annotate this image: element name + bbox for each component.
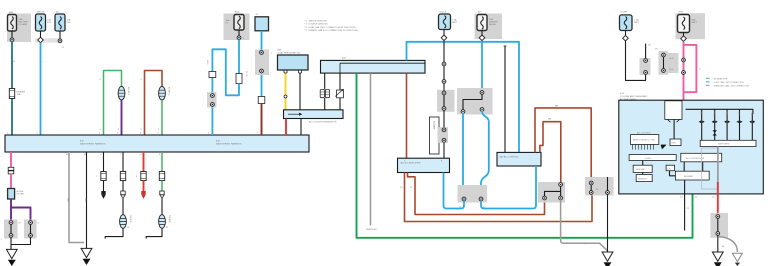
svg-text:1H 2: 1H 2	[206, 60, 208, 65]
switch labels	[700, 112, 753, 117]
diamond indicator	[713, 130, 717, 135]
link left boxes	[642, 161, 644, 175]
wire black below bar	[300, 119, 302, 136]
ring IP3	[461, 110, 465, 114]
svg-text:10: 10	[400, 187, 403, 189]
wire brown outer loop	[535, 108, 591, 181]
wire black block S to ground	[717, 235, 719, 252]
svg-text:* 5 : W/BACK CAB (O/O CONNECT: * 5 : W/BACK CAB (O/O CONNECTOR W/ JUNCT…	[304, 29, 358, 32]
wire GAUGE to connector	[40, 31, 42, 38]
wire dark red to bus	[261, 104, 263, 136]
svg-text:8: 8	[136, 176, 138, 178]
arrow mid	[661, 145, 667, 150]
fuse HEATER inline	[9, 89, 14, 99]
svg-text:: SHIELDED CAB - W/O CONNECTOR: : SHIELDED CAB - W/O CONNECTOR	[713, 84, 750, 87]
fuse GAUGE	[36, 14, 46, 31]
connector rect 1H horizontal	[209, 72, 216, 78]
connector oval c2	[120, 215, 127, 229]
wire A/C to diamond	[481, 31, 483, 36]
svg-text:MAIN WIRING HARNESS: MAIN WIRING HARNESS	[216, 142, 242, 145]
fuse A/C No.2	[55, 14, 65, 31]
wire circuit4 d	[146, 228, 162, 238]
connector oval c4	[159, 215, 166, 229]
connector rect 1J vertical	[236, 74, 242, 84]
svg-text:4: 4	[99, 133, 101, 135]
svg-text:A62 A/C CONTROL: A62 A/C CONTROL	[500, 156, 520, 159]
wire circuit2 c	[122, 199, 124, 215]
connector triangle GAUGE	[38, 37, 44, 43]
ring M3	[559, 196, 563, 200]
svg-text:AM2: AM2	[235, 11, 240, 14]
svg-text:P: P	[699, 69, 701, 71]
fuse A/C main	[477, 15, 487, 31]
wire circuit1 b	[103, 181, 105, 192]
wire cyan IP curve to block L right	[481, 111, 489, 197]
svg-text:1E: 1E	[655, 49, 658, 51]
ring M1	[559, 183, 563, 187]
switch drop 2	[714, 109, 716, 140]
svg-text:IGN: IGN	[67, 22, 71, 24]
left small box B	[636, 175, 652, 182]
connector diamond HTR	[681, 36, 687, 42]
svg-text:5: 5	[158, 133, 160, 135]
connector block IM	[437, 90, 455, 112]
svg-text:HEATER: HEATER	[489, 21, 498, 24]
wire black block R to ground	[607, 177, 609, 252]
wire pink from bus	[10, 152, 12, 168]
svg-text:REC: REC	[713, 112, 715, 117]
wire cyan DOME down	[261, 31, 263, 97]
svg-text:13: 13	[166, 227, 169, 229]
connector block IF	[255, 50, 269, 76]
svg-text:BATTERY: BATTERY	[19, 21, 29, 24]
svg-text:15: 15	[695, 197, 698, 199]
wire black ps	[299, 73, 301, 110]
connector block R	[585, 177, 614, 196]
arrow inside bar	[288, 113, 302, 116]
switch rail	[686, 109, 753, 114]
svg-text:A15: A15	[342, 57, 347, 60]
component outline tall rect	[430, 117, 440, 154]
ring IJ2	[9, 234, 13, 238]
svg-text:4: 4	[100, 129, 102, 131]
ring IM1	[442, 91, 446, 95]
wire ECU-B to diamond	[443, 30, 445, 36]
connector block IJ left	[4, 220, 18, 239]
svg-text:1: 1	[7, 133, 9, 135]
connector block S	[710, 213, 728, 238]
svg-text:4: 4	[100, 79, 102, 81]
ground right1	[712, 252, 723, 266]
svg-text:1J 2 L: 1J 2 L	[245, 71, 247, 78]
terminal circuit3	[141, 191, 145, 199]
wire brown box1 to horizontal2	[405, 173, 593, 222]
bus A15 cowl wire	[5, 135, 309, 152]
ring IP2	[480, 108, 484, 112]
wire W-B black to ground	[86, 152, 88, 248]
wire to relay sym2	[339, 73, 341, 110]
svg-text:7.5A: 7.5A	[452, 19, 457, 22]
svg-text:E5 BR-G: E5 BR-G	[168, 87, 170, 96]
wire brown inner loop	[540, 122, 561, 183]
legend line 2	[706, 81, 744, 84]
svg-text:12V: 12V	[667, 168, 671, 170]
svg-text:10A: 10A	[67, 19, 71, 22]
svg-text:1E: 1E	[648, 45, 651, 47]
wire cyan zigzag AM2	[238, 39, 240, 73]
gray label block HTR	[668, 53, 679, 73]
wire DOME to diamond	[625, 31, 627, 36]
link wire block M	[545, 186, 561, 197]
svg-text:5: 5	[37, 133, 39, 135]
svg-text:MAIN WIRING HARNESS: MAIN WIRING HARNESS	[80, 142, 106, 145]
wires bar to blower	[684, 162, 703, 171]
box2 A/C control	[497, 152, 541, 166]
connector block IG	[207, 92, 217, 108]
link wire 1E	[663, 55, 665, 71]
svg-text:13: 13	[127, 227, 130, 229]
svg-text:BLOWER: BLOWER	[684, 176, 694, 178]
ring L2	[479, 197, 483, 201]
svg-text:2: 2	[208, 133, 210, 135]
wire join to ground	[11, 237, 31, 249]
svg-text:REG: REG	[672, 143, 677, 145]
legend line 3	[706, 84, 749, 87]
ring IF1	[260, 51, 264, 55]
svg-text:DUAL PRESSURE SW: DUAL PRESSURE SW	[278, 51, 301, 54]
junction block 1E	[659, 51, 669, 75]
svg-text:10: 10	[712, 197, 715, 199]
ring S1	[716, 215, 720, 219]
ring IF2	[260, 69, 264, 73]
connector pair IG1	[8, 167, 14, 174]
box DOME junction	[255, 17, 269, 31]
svg-text:B: B	[14, 61, 16, 63]
small box mid	[670, 139, 681, 146]
svg-text:7: 7	[120, 154, 122, 156]
wide bar serial	[629, 155, 676, 161]
svg-text:A6 COOLER THERMISTOR: A6 COOLER THERMISTOR	[309, 121, 337, 124]
wire pink branch loop	[684, 45, 697, 92]
svg-text:DEF: DEF	[737, 112, 739, 117]
wire A/C2 to connector	[59, 31, 61, 39]
connector strip 1B	[35, 38, 61, 42]
svg-text:40A: 40A	[19, 18, 23, 21]
svg-text:A/C: A/C	[56, 11, 60, 14]
wire gray block M to ground	[561, 200, 608, 251]
resistor symbol sym2	[335, 89, 343, 98]
svg-text:BATT: BATT	[692, 21, 698, 24]
svg-text:IK: IK	[19, 223, 22, 225]
ring on yellow	[284, 95, 287, 98]
relay symbol pair	[320, 90, 329, 98]
wire circuit4 b	[161, 181, 163, 192]
legend line 1	[706, 77, 728, 80]
svg-text:8: 8	[141, 154, 143, 156]
wire cyan box2 down	[535, 166, 537, 202]
ground left2	[81, 248, 92, 264]
connector block IN	[438, 127, 449, 143]
svg-text:BR: BR	[555, 106, 558, 108]
ring ECU-B 1	[442, 62, 446, 66]
connector 1A	[10, 38, 14, 42]
svg-text:E13: E13	[620, 93, 625, 95]
connector circuit2	[121, 191, 125, 198]
ring S2	[716, 232, 720, 236]
svg-text:* 4 : DUAL CAB (W/O CONNECTOR: * 4 : DUAL CAB (W/O CONNECTOR W/ JUNCTIO…	[304, 26, 356, 29]
wire cyan IP to block L left	[462, 113, 464, 197]
fuse block background A/C	[475, 14, 503, 40]
connector oval E6	[118, 86, 125, 100]
svg-text:* 3 : DOUBLE (4WD/4X): * 3 : DOUBLE (4WD/4X)	[304, 24, 328, 26]
svg-text:W-B: W-B	[66, 198, 68, 203]
connector block IP	[457, 88, 493, 115]
connector block IJ right	[24, 220, 37, 239]
link wire left	[10, 223, 12, 236]
svg-text:1: 1	[1, 239, 3, 241]
ring IG2	[211, 103, 215, 107]
svg-text:TEMP CONTROL + SW: TEMP CONTROL + SW	[633, 140, 655, 142]
svg-text:FILTER: FILTER	[17, 194, 25, 196]
ring HTR1	[682, 58, 686, 62]
wire ECU-B in block	[443, 90, 445, 158]
connector ring A/C2	[58, 39, 62, 43]
left small box A	[633, 165, 652, 172]
svg-text:IL: IL	[38, 223, 41, 225]
svg-text:7: 7	[96, 176, 98, 178]
svg-text:BATT: BATT	[634, 21, 640, 24]
connector block DOME	[640, 58, 651, 75]
ECU panel A/C amplifier assembly	[619, 100, 764, 194]
wire circuit4 c	[161, 199, 163, 215]
svg-text:12: 12	[62, 47, 65, 49]
wire circuit2 black	[122, 152, 124, 172]
gray tick 2	[584, 242, 586, 244]
svg-text:6: 6	[140, 133, 142, 135]
ring IJ1	[9, 221, 13, 225]
fuse circuit3	[141, 172, 146, 181]
box A/C dual pressure switch	[278, 55, 309, 70]
terminal circuit1	[101, 191, 105, 199]
svg-text:RELAY: RELAY	[489, 23, 497, 26]
link wire block S	[717, 218, 719, 232]
svg-text:HEATER: HEATER	[17, 91, 26, 94]
wire AM2 to ring	[238, 30, 240, 36]
svg-text:6: 6	[159, 154, 161, 156]
ground center	[602, 252, 613, 266]
switch drop 4	[739, 109, 741, 140]
switch contacts row	[699, 121, 756, 124]
box temperature control	[631, 135, 659, 145]
svg-text:1: 1	[271, 53, 273, 55]
wire green loop heater relay	[104, 71, 122, 136]
svg-text:BATT: BATT	[452, 21, 458, 24]
wire pink to noise filter	[10, 174, 12, 189]
ring 1E1	[662, 53, 666, 57]
junction bar1 engine room	[321, 60, 426, 73]
connector ring AM2	[237, 36, 241, 40]
ring R2	[589, 191, 593, 195]
ring L1	[462, 197, 466, 201]
ring R1	[589, 181, 593, 185]
svg-text:B6 W-B: B6 W-B	[129, 216, 131, 224]
wire L-cyan GAUGE to bus	[40, 43, 42, 135]
svg-text:COOLER AMP / ASSEMBLY: COOLER AMP / ASSEMBLY	[620, 95, 648, 98]
svg-text:10A: 10A	[17, 93, 21, 96]
fuse ECU-B	[439, 14, 451, 30]
connector rect IE	[258, 97, 265, 104]
link wire right	[30, 223, 32, 236]
wire circuit1 black	[103, 152, 105, 172]
wire red below bar	[285, 119, 287, 136]
svg-text:SENSOR: SENSOR	[638, 178, 647, 180]
ring R3	[606, 191, 610, 195]
svg-text:FL MAIN: FL MAIN	[19, 23, 28, 26]
wire black branch to box2	[504, 46, 506, 152]
wire purple to bus	[121, 100, 123, 135]
svg-text:IH: IH	[66, 154, 69, 156]
wire circuit2 d	[105, 228, 123, 238]
wire cyan U-turn right	[481, 201, 536, 209]
ring IM2	[442, 107, 446, 111]
connector oval E5	[159, 86, 166, 100]
wire circuit4 green	[161, 152, 163, 172]
noise filter box	[8, 189, 15, 200]
fuse circuit2	[120, 172, 125, 181]
connector block M	[538, 182, 565, 203]
svg-text:50A: 50A	[692, 19, 696, 22]
overlap box serial comm	[681, 153, 722, 162]
svg-text:3: 3	[118, 129, 120, 131]
svg-text:3: 3	[117, 133, 119, 135]
wire gray inside panel	[717, 147, 719, 183]
box1 A/C amplifier	[398, 158, 450, 172]
connector diamond DOME	[623, 35, 629, 41]
svg-text:6: 6	[141, 79, 143, 81]
wire to relay sym1	[324, 73, 326, 110]
wire black branch block IP	[463, 95, 482, 115]
svg-text:7.5A: 7.5A	[634, 19, 639, 22]
svg-text:SHIELDED: SHIELDED	[366, 229, 377, 231]
svg-text:A/C: A/C	[700, 112, 703, 116]
ground right2	[732, 253, 742, 266]
svg-text:5: 5	[158, 129, 160, 131]
svg-text:DISPLAY: DISPLAY	[636, 168, 645, 171]
wire regulator down	[673, 119, 675, 139]
terminal ring ps2	[298, 70, 301, 73]
pin wire panel bottom	[684, 180, 686, 231]
svg-text:FRS: FRS	[725, 112, 727, 117]
svg-text:10A: 10A	[489, 18, 493, 21]
wire brown box1 jog to horizontal1	[408, 173, 545, 215]
svg-text:10A: 10A	[47, 19, 51, 22]
ring DOME2	[644, 71, 648, 75]
svg-text:VNT: VNT	[750, 112, 752, 117]
ring 1E2	[662, 69, 666, 73]
fuse block background AM2	[224, 14, 250, 41]
wire brown loop blower relay	[145, 71, 163, 136]
fuse block background (top-left)	[7, 14, 31, 43]
wire circuit3 red	[143, 152, 145, 172]
wire brown bar1 to box1	[406, 73, 408, 158]
wire cyan U-turn left	[444, 173, 465, 209]
svg-text:30A: 30A	[226, 19, 230, 22]
terminal ring ps1	[284, 70, 287, 73]
wire 12V to blower	[670, 171, 676, 176]
junction tick black branch	[504, 45, 507, 47]
svg-text:IGN: IGN	[47, 22, 51, 24]
svg-text:LOGIC: LOGIC	[645, 158, 652, 160]
svg-text:1F: 1F	[256, 14, 259, 16]
ring IJ4	[29, 234, 33, 238]
connector block L	[458, 185, 488, 203]
fuse DOME	[620, 15, 633, 31]
svg-text:GAUGE: GAUGE	[37, 11, 45, 14]
svg-text:L: L	[42, 61, 44, 63]
svg-text:AM1: AM1	[9, 11, 14, 14]
box blower control	[675, 171, 709, 180]
svg-text:SWITCHES: SWITCHES	[718, 144, 730, 146]
svg-text:A28: A28	[278, 49, 283, 52]
comb pins	[633, 144, 654, 149]
wire green to bus (blower)	[161, 100, 163, 135]
svg-text:* 2 : SINGLE (2WD/4X): * 2 : SINGLE (2WD/4X)	[304, 20, 327, 22]
wire red to block	[717, 182, 719, 214]
svg-text:6: 6	[141, 129, 143, 131]
ring ECU-B 2	[442, 80, 446, 84]
ring IP1	[480, 91, 484, 95]
wire cyan horizontal main	[407, 42, 520, 153]
wire black DOME loop	[626, 41, 646, 80]
ring IN2	[442, 138, 446, 142]
box 12V	[666, 165, 675, 171]
svg-text:7: 7	[257, 133, 259, 135]
switch bar	[700, 140, 756, 146]
switch drop 1	[701, 109, 703, 140]
svg-text:IE: IE	[722, 246, 725, 248]
svg-text:B5 W-B: B5 W-B	[168, 216, 170, 224]
ring DOME1	[644, 59, 648, 63]
wire gray branch right ground	[719, 237, 737, 253]
svg-text:BR: BR	[548, 119, 551, 121]
gray tick 1	[566, 242, 568, 244]
fuse circuit1	[101, 172, 106, 181]
svg-text:E6 GR-V: E6 GR-V	[127, 87, 129, 96]
ring HTR2	[682, 71, 686, 75]
wire circuit3 b	[143, 181, 145, 192]
ground left1	[6, 249, 17, 265]
bar1 inner divider	[340, 63, 425, 73]
ring IG1	[211, 94, 215, 98]
junction bar shielded	[284, 110, 344, 119]
svg-text:A31 AMP: A31 AMP	[433, 121, 436, 130]
wire pink main	[683, 41, 685, 100]
switch drop 3	[726, 109, 728, 140]
svg-text:14: 14	[680, 197, 683, 199]
svg-text:A/C: A/C	[478, 11, 482, 14]
wire HTR to diamond	[683, 33, 685, 36]
fuse HTR	[678, 15, 690, 33]
fuse AM2	[234, 15, 244, 31]
svg-text:9: 9	[101, 154, 103, 156]
svg-text:ECU-B: ECU-B	[440, 12, 447, 14]
wire cyan A/C down	[481, 41, 483, 93]
connector circuit4	[160, 191, 164, 198]
fuse AM1	[8, 15, 17, 32]
link wire block R	[590, 183, 592, 193]
wire green long (bar1 to ECU)	[357, 73, 693, 238]
connector diamond ECU-B	[441, 35, 447, 41]
